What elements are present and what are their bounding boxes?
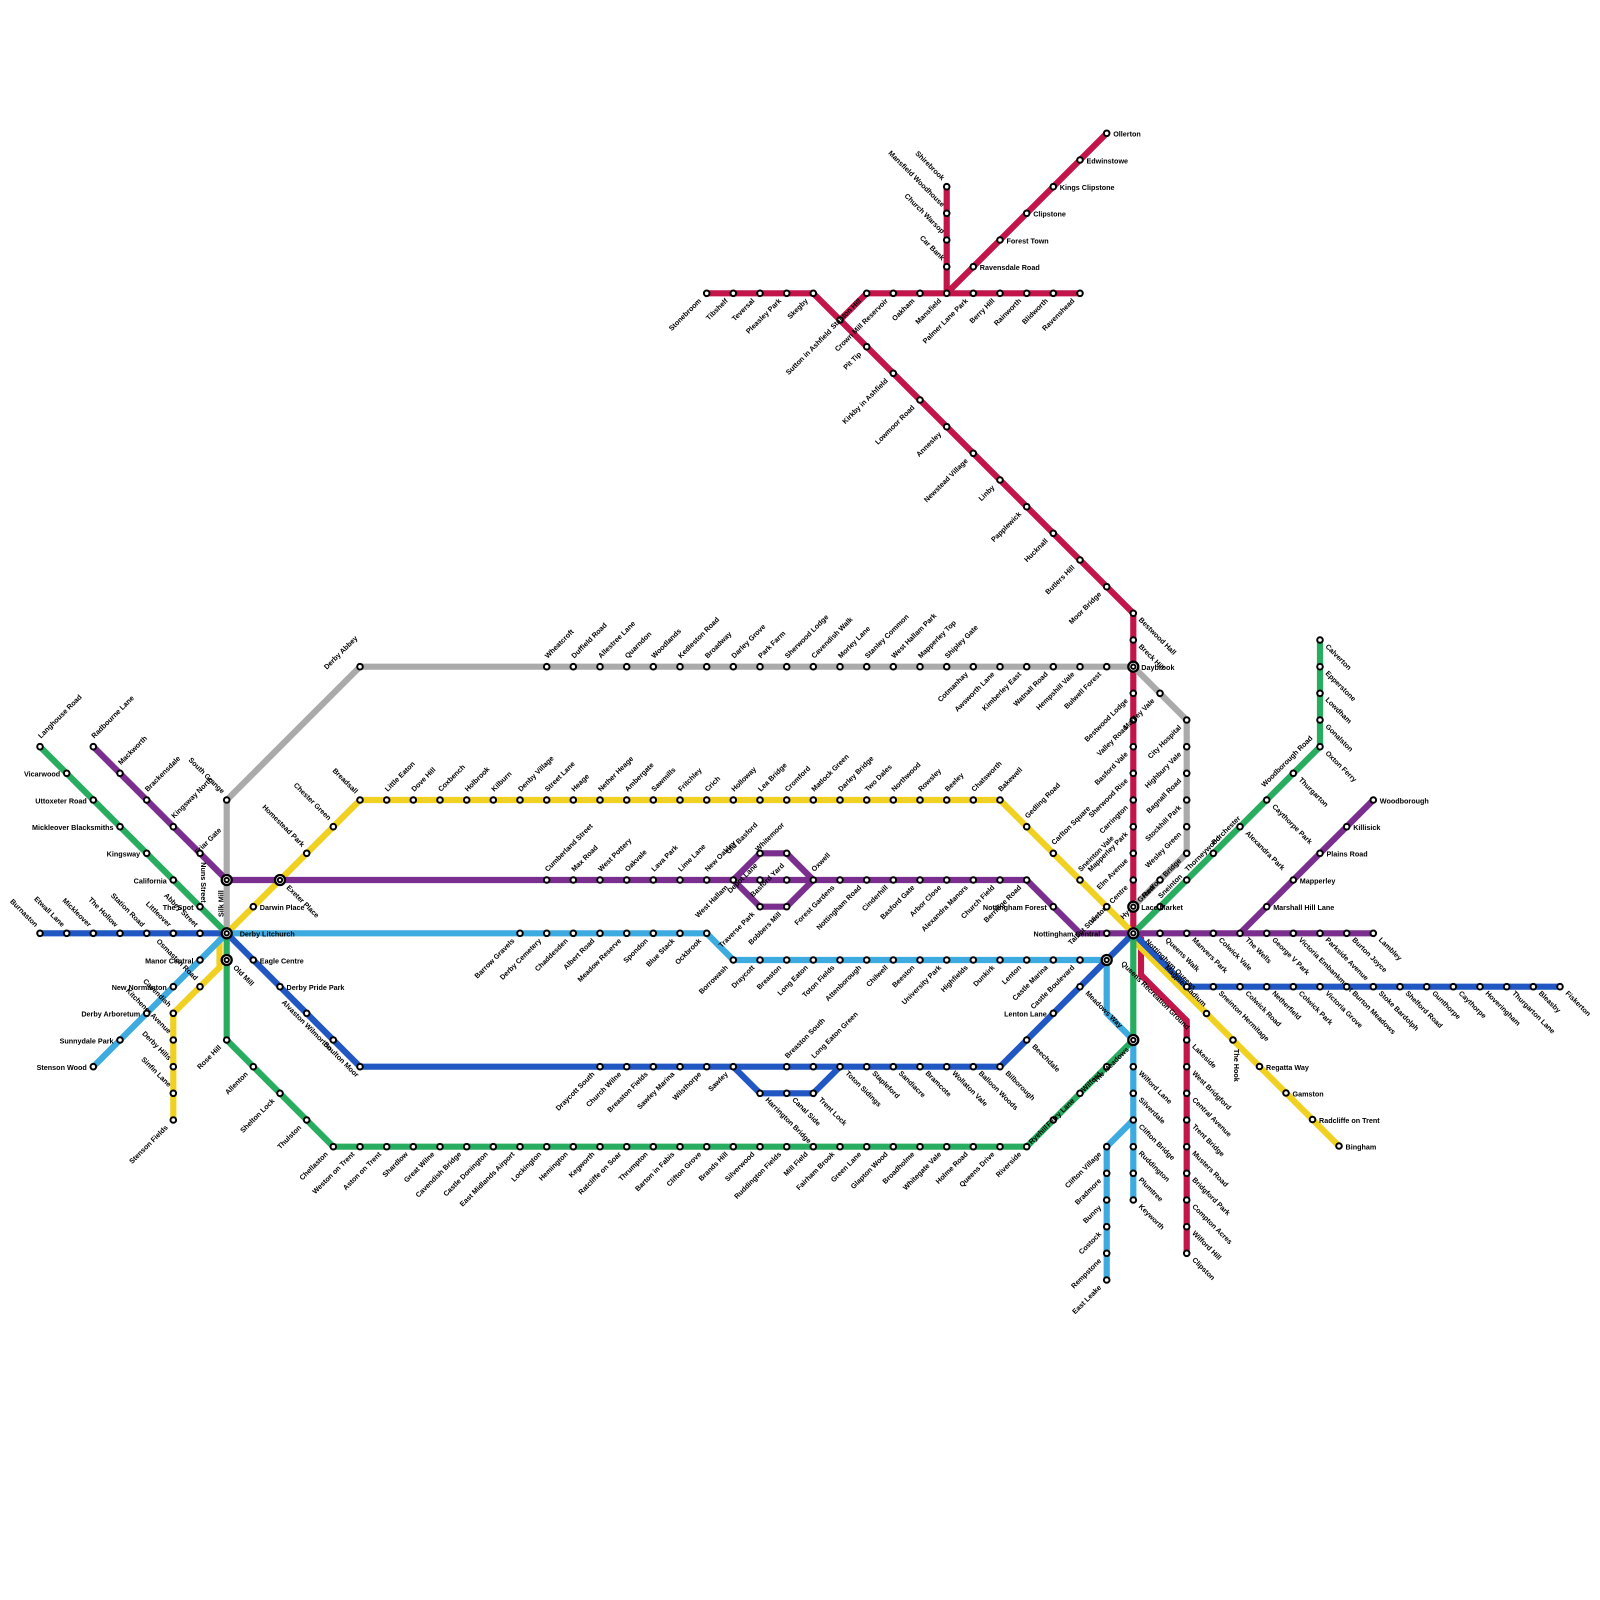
station Carrington — [1097, 797, 1136, 835]
station Nottingham Central — [1034, 930, 1110, 939]
interchange Nottingham Queens — [1128, 928, 1138, 938]
station Bradmore — [1073, 1171, 1110, 1207]
station Nether Heage — [596, 754, 635, 803]
svg-text:Lenton Lane: Lenton Lane — [1004, 1010, 1047, 1019]
station Derby Pride Park — [277, 983, 344, 992]
station Manvers Park — [1184, 931, 1230, 975]
station Lowmoor Road — [873, 397, 923, 446]
station Blidworth — [1020, 291, 1056, 327]
station Rose Hill — [195, 1037, 230, 1071]
station New Normanton — [112, 983, 176, 992]
station Queens Drive — [957, 1144, 1003, 1189]
station Harrington Bridge — [757, 1091, 813, 1146]
station Denby Village — [516, 754, 556, 803]
station Stanley Common — [863, 612, 911, 669]
station Darwin Place — [251, 903, 305, 912]
station Brackensdale — [143, 754, 182, 803]
station Allestree Lane — [596, 619, 637, 669]
station Quarndon — [623, 629, 654, 669]
station Central Avenue — [1184, 1091, 1234, 1139]
station Caythorpe — [1451, 984, 1489, 1020]
station Wilford Lane — [1131, 1064, 1174, 1106]
station Shardlow — [380, 1144, 416, 1179]
station Nottingham Forest — [983, 903, 1056, 912]
svg-text:The Hook: The Hook — [1232, 1049, 1241, 1082]
station Hemington — [537, 1144, 576, 1183]
station Cumberland Street — [543, 821, 595, 883]
station Duffield Road — [569, 621, 608, 670]
station Wollaton Vale — [944, 1064, 990, 1108]
station Bingham — [1336, 1142, 1376, 1151]
station Sneinton — [1156, 872, 1184, 909]
station Cavendish Bridge — [414, 1144, 470, 1199]
station Morley Lane — [836, 624, 872, 669]
line Blue Line — [40, 933, 1560, 1093]
station Burton Meadows — [1344, 984, 1398, 1036]
station Toton Sidings — [837, 1064, 883, 1109]
station Valley Road — [1095, 717, 1136, 758]
station Thulston — [275, 1117, 309, 1151]
station Bakewell — [996, 765, 1024, 803]
station Thurgarton — [1291, 771, 1331, 809]
station Draycott South — [554, 1064, 603, 1113]
station Sneinton Hermitage — [1211, 984, 1272, 1043]
station Sherwood Rise — [1087, 771, 1136, 820]
station Basford Yard — [748, 861, 789, 899]
station Porchester — [1209, 814, 1242, 856]
svg-text:Manor Central: Manor Central — [145, 956, 193, 965]
station Albert Road — [561, 931, 603, 972]
station West Pottery — [596, 836, 633, 883]
station Boulton Moor — [322, 1040, 363, 1080]
svg-text:Kingsway: Kingsway — [107, 850, 141, 859]
station George V Park — [1264, 931, 1312, 977]
station Breaston — [755, 957, 790, 991]
station Kedleston Road — [676, 615, 721, 669]
station Costock — [1077, 1224, 1110, 1256]
station Great Wilne — [402, 1144, 443, 1184]
station Basford Vale — [1093, 744, 1137, 787]
interchange Silk Mill — [222, 875, 232, 885]
station Sherwood Lodge — [783, 613, 831, 670]
station Ravensdale Road — [971, 263, 1040, 272]
svg-text:Radcliffe on Trent: Radcliffe on Trent — [1319, 1116, 1380, 1125]
station Teversal — [730, 291, 763, 323]
station Caythorpe Park — [1264, 797, 1314, 846]
station Mabley Vale — [1121, 691, 1163, 732]
station Heage — [569, 772, 591, 803]
svg-text:Darwin Place: Darwin Place — [260, 903, 305, 912]
station Edwinstowe — [1077, 156, 1128, 165]
line Purple Line — [93, 747, 1373, 934]
station Derby Abbey — [322, 634, 363, 672]
station Woodborough — [1371, 796, 1429, 805]
station Uttoxeter Road — [35, 796, 96, 805]
station Stenson Wood — [37, 1063, 96, 1072]
svg-text:Sunnydale Park: Sunnydale Park — [60, 1036, 114, 1045]
station Radcliffe on Trent — [1310, 1116, 1381, 1125]
station Beeley — [943, 771, 966, 803]
station Cavendish — [141, 977, 176, 1016]
station Ruddington — [1131, 1144, 1172, 1184]
station Highfields — [939, 957, 976, 994]
station Ockbrook — [673, 931, 709, 967]
station Balloon Woods — [971, 1064, 1021, 1112]
station Fairham Brook — [794, 1144, 843, 1192]
station Ollerton — [1104, 130, 1141, 139]
station Thurgarton Lane — [1504, 984, 1557, 1036]
station Broadholme — [880, 1144, 922, 1186]
station Killisick — [1344, 823, 1380, 832]
station Church Field — [959, 877, 1003, 920]
svg-text:Kings Clipstone: Kings Clipstone — [1060, 183, 1115, 192]
station Long Eaton Green — [809, 1010, 859, 1070]
station Plumtree — [1131, 1171, 1166, 1204]
station Sawmills — [649, 765, 677, 803]
station University Park — [900, 957, 950, 1006]
station California — [134, 876, 176, 885]
station Victoria Centre — [1087, 877, 1136, 925]
station Clifton Grove — [665, 1144, 710, 1188]
svg-text:Vicarwood: Vicarwood — [24, 770, 60, 779]
station Magpie Stadium — [1163, 963, 1209, 1016]
svg-text:Woodborough: Woodborough — [1380, 796, 1429, 805]
station Church Wilne — [584, 1064, 629, 1109]
station Fiskerton — [1557, 984, 1593, 1018]
station Forest Town — [997, 236, 1049, 245]
station Crich — [703, 774, 722, 803]
station Max Road — [569, 843, 599, 883]
station Bunny — [1081, 1197, 1110, 1225]
station Wilford Hill — [1184, 1224, 1224, 1262]
station Street Lane — [543, 759, 577, 802]
svg-text:Ollerton: Ollerton — [1113, 130, 1141, 139]
station Woodlands — [649, 626, 683, 669]
station Lime Lane — [676, 842, 708, 883]
station The Hook — [1230, 1037, 1241, 1082]
station Victoria Embankment — [1291, 931, 1356, 995]
station Thrumpton — [617, 1144, 657, 1183]
station Blue Stack — [644, 931, 683, 969]
station Riverside — [994, 1144, 1030, 1179]
station Darley Grove — [729, 622, 767, 669]
station Basford Gate — [878, 877, 923, 921]
station New Oakley — [703, 839, 738, 883]
svg-text:The Spot: The Spot — [163, 903, 194, 912]
station Aston on Trent — [341, 1144, 390, 1192]
station Victoria Grove — [1317, 984, 1364, 1030]
station Tibshelf — [704, 291, 736, 323]
station Holme Road — [934, 1144, 976, 1186]
svg-text:Regatta Way: Regatta Way — [1266, 1063, 1309, 1072]
station Kimberley East — [980, 664, 1029, 713]
station Castle Donington — [441, 1144, 496, 1198]
station Thorneywood — [1183, 834, 1223, 883]
station Long Eaton — [775, 957, 816, 997]
station Bulwell Forest — [1062, 664, 1109, 711]
interchange Daybrook — [1128, 662, 1138, 672]
station Cromford — [783, 764, 813, 803]
svg-text:Daybrook: Daybrook — [1141, 663, 1174, 672]
station Little Eaton — [383, 759, 417, 802]
svg-text:Derby Arboretum: Derby Arboretum — [81, 1010, 140, 1019]
station Silverdale — [1131, 1091, 1168, 1126]
station Shelford Road — [1397, 984, 1444, 1030]
station Eagle Centre — [251, 956, 304, 965]
station Mapperley — [1291, 876, 1336, 885]
station Broadway — [703, 629, 734, 669]
station Wilmorton — [303, 1021, 336, 1052]
station Mapperley Park — [1086, 824, 1136, 874]
station Sawley — [706, 1064, 736, 1093]
station Ruddington Fields — [732, 1144, 789, 1201]
svg-text:Forest Town: Forest Town — [1007, 236, 1049, 245]
station Sandiacre — [891, 1064, 928, 1100]
station Sinfin Lane — [139, 1055, 176, 1096]
station Old Basford — [724, 820, 763, 856]
station Nuns Street — [197, 851, 208, 904]
station Stockhill Park — [1143, 797, 1189, 843]
svg-text:Nottingham Central: Nottingham Central — [1034, 930, 1101, 939]
station Butlers Hill — [1043, 557, 1083, 596]
station Newstead Village — [922, 451, 976, 505]
station Beechdale — [1024, 1037, 1062, 1074]
station Hucknall — [1022, 531, 1056, 564]
station Chaddesden — [533, 931, 576, 974]
station Clipstone — [1024, 210, 1066, 219]
station Linby — [976, 477, 1002, 503]
station Forest Gardens — [792, 877, 842, 927]
svg-text:Stenson Wood: Stenson Wood — [37, 1063, 87, 1072]
station Green Lane — [829, 1144, 870, 1184]
station City Hospital — [1146, 717, 1190, 760]
station Mickleover Blacksmiths — [32, 823, 123, 832]
station West Hallam — [693, 877, 736, 919]
svg-text:Bingham: Bingham — [1346, 1142, 1377, 1151]
station Manor Central — [145, 956, 203, 965]
svg-text:Nottingham Forest: Nottingham Forest — [983, 903, 1047, 912]
station Draycott — [729, 957, 762, 990]
station Clipston — [1184, 1251, 1217, 1283]
station West Hallam Park — [889, 611, 938, 669]
station Pit Tip — [841, 344, 869, 372]
station Breck Hill — [1131, 637, 1167, 672]
station Derby Hills — [140, 1029, 176, 1069]
station Compton Acres — [1184, 1197, 1234, 1246]
svg-text:Edwinstowe: Edwinstowe — [1087, 156, 1129, 165]
station Stanton Hill — [829, 291, 870, 331]
station Stapleford — [864, 1064, 902, 1100]
station Bleasby — [1531, 984, 1563, 1015]
station Mill Field — [782, 1144, 816, 1178]
station Wesley Green — [1143, 824, 1189, 870]
station Rempstone — [1069, 1251, 1109, 1291]
station Osmaston Road — [155, 937, 203, 990]
station Cavendish Walk — [809, 615, 854, 670]
station Mapperley Top — [916, 618, 958, 670]
station Netherfield — [1264, 984, 1303, 1022]
station Sawley Marina — [635, 1064, 683, 1111]
station West Bridgford — [1184, 1064, 1233, 1112]
station Whitegate Vale — [901, 1144, 950, 1192]
station Meadows Way — [1077, 984, 1124, 1030]
station Oakvale — [623, 848, 649, 883]
station Regatta Way — [1257, 1063, 1309, 1072]
svg-text:Plains Road: Plains Road — [1327, 850, 1368, 859]
station Wilsthorpe — [671, 1064, 710, 1102]
station Papplewick — [989, 504, 1029, 544]
station Chester Green — [292, 781, 336, 830]
line Green Line — [40, 640, 1320, 1147]
station Park Farm — [756, 629, 787, 670]
interchange The Meadows — [1128, 1035, 1138, 1045]
station Gonalston — [1317, 717, 1355, 753]
station East Leake — [1070, 1277, 1109, 1316]
station Burnaston — [8, 897, 43, 936]
station Kilburn — [489, 769, 513, 803]
station Barrow Gravels — [472, 931, 522, 981]
station Gunthorpe — [1424, 984, 1463, 1021]
station Musters Road — [1184, 1144, 1230, 1189]
station Car Bank — [918, 233, 950, 269]
station Chatsworth — [969, 759, 1003, 803]
station Colwick Park — [1291, 984, 1335, 1027]
station Mansfield Woodhouse — [886, 149, 949, 217]
station Talbot Street — [1066, 904, 1109, 947]
station Toton Fields — [800, 957, 843, 999]
station Kitchener Avenue — [124, 986, 176, 1043]
station Meadow Reserve — [576, 931, 630, 984]
station Berry Hill — [967, 291, 1002, 326]
station Queens Walk — [1157, 931, 1201, 974]
station Kingsway North — [169, 775, 214, 829]
station Clifton Village — [1063, 1144, 1110, 1190]
station Pleasley Park — [744, 291, 790, 336]
station Trent Lock — [811, 1091, 849, 1128]
station Colwick Road — [1237, 984, 1283, 1029]
station Lambley — [1371, 931, 1404, 963]
station Derby Arboretum — [81, 1010, 149, 1019]
station Cotmanhay — [936, 664, 976, 704]
station Carlton Square — [1049, 804, 1092, 856]
station Alexandra Manors — [919, 877, 976, 933]
station Annesley — [914, 424, 949, 459]
station Attenborough — [823, 957, 869, 1003]
station Chilwell — [864, 957, 896, 988]
station Stenson Fields — [127, 1117, 176, 1165]
station Sunnydale Park — [60, 1036, 123, 1045]
station Rowsley — [916, 766, 943, 802]
station Matlock Green — [809, 752, 850, 803]
station Abbey Street — [162, 891, 203, 936]
station Kegworth — [567, 1144, 603, 1180]
station Ferry Lane — [1044, 1091, 1083, 1129]
station Littleover — [144, 899, 176, 936]
interchange Lace Market — [1128, 902, 1138, 912]
station Clifton Bridge — [1131, 1117, 1177, 1162]
svg-text:Marshall Hill Lane: Marshall Hill Lane — [1273, 903, 1334, 912]
station Shelton Lock — [238, 1091, 283, 1135]
station Parkside Avenue — [1317, 931, 1370, 983]
station The Spot — [163, 903, 203, 912]
station Holbrook — [463, 765, 492, 803]
station Castle Boulevard — [1029, 957, 1083, 1011]
station Church Warsop — [903, 191, 950, 242]
station Lowdham — [1317, 691, 1353, 726]
interchange Queens Recreation Ground — [1102, 955, 1112, 965]
station Whitemoor — [753, 820, 789, 856]
svg-text:Gamston: Gamston — [1293, 1089, 1324, 1098]
station Berridge Road — [982, 877, 1030, 924]
station Wheatcroft — [543, 627, 576, 670]
station Ryehill — [1027, 1117, 1056, 1146]
interchange Old Mill — [222, 955, 232, 965]
station Coxbench — [436, 762, 467, 802]
station Highbury Vale — [1143, 744, 1190, 790]
station Bilborough — [997, 1064, 1037, 1102]
station Oxwell — [809, 851, 832, 883]
station Sutton in Ashfield — [784, 317, 843, 377]
station Ratcliffe on Soar — [576, 1144, 629, 1197]
station Palmer Lane Park — [921, 291, 976, 346]
svg-text:Mapperley: Mapperley — [1300, 876, 1336, 885]
station Radbourne Lane — [89, 694, 135, 750]
station Nottingham Road — [814, 877, 869, 932]
station Marshall Hill Lane — [1264, 903, 1334, 912]
station Darley Bridge — [836, 754, 875, 803]
station Chellaston — [297, 1144, 336, 1182]
svg-text:California: California — [134, 876, 168, 885]
interchange Derby Litchurch — [222, 928, 232, 938]
station Hempshill Vale — [1034, 664, 1083, 712]
station Kingsway — [107, 850, 150, 859]
station Oakham — [890, 291, 923, 323]
station Spondon — [621, 931, 656, 965]
svg-text:Ravensdale Road: Ravensdale Road — [980, 263, 1040, 272]
svg-text:Uttoxeter Road: Uttoxeter Road — [35, 796, 87, 805]
station Breadsall — [331, 766, 363, 803]
station The Wells — [1237, 931, 1273, 966]
station Hyson Green — [1118, 877, 1162, 921]
station Lockington — [509, 1144, 549, 1184]
station Lenton Lane — [1004, 1010, 1056, 1019]
station Bagnall Road — [1144, 771, 1189, 816]
station Mansfield — [913, 291, 949, 327]
station Barton in Fabis — [633, 1144, 683, 1193]
station The Hollow — [86, 895, 122, 936]
station Crown Mill Reservoir — [833, 291, 896, 354]
station Weston on Trent — [310, 1144, 362, 1196]
svg-text:Mickleover Blacksmiths: Mickleover Blacksmiths — [32, 823, 114, 832]
station Alvaston — [280, 998, 310, 1026]
station Lenton — [1000, 957, 1030, 986]
svg-text:Silk Mill: Silk Mill — [216, 890, 225, 917]
interchange Exeter Place — [275, 875, 285, 885]
station Bestwood Hall — [1131, 611, 1179, 657]
station Holloway — [729, 765, 758, 803]
line Cyan Line — [93, 933, 1133, 1280]
svg-text:Eagle Centre: Eagle Centre — [260, 956, 304, 965]
station Silverwood — [723, 1144, 763, 1183]
station Mackworth — [116, 734, 149, 776]
station Bramcote — [917, 1064, 953, 1099]
svg-text:Clipstone: Clipstone — [1033, 210, 1066, 219]
station Cinderhill — [860, 877, 896, 913]
station Beeston — [890, 957, 923, 989]
svg-text:Lace Market: Lace Market — [1141, 903, 1183, 912]
station Burton Joyce — [1344, 931, 1389, 975]
station Breaston Fields — [605, 1064, 656, 1114]
